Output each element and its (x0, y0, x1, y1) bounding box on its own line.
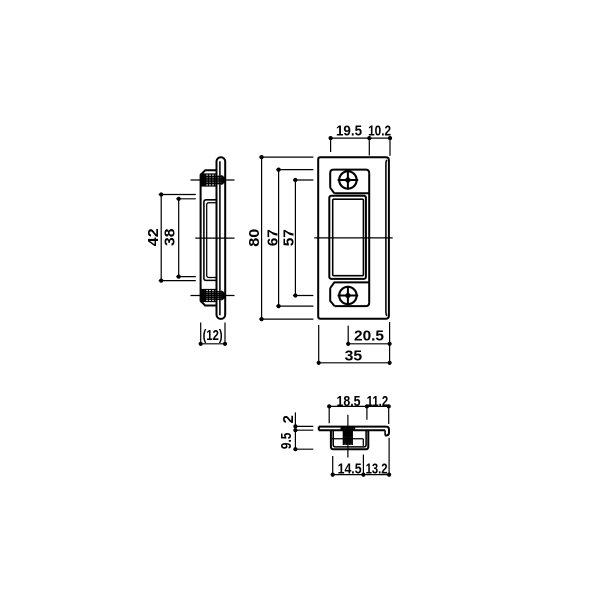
svg-text:13.2: 13.2 (366, 461, 388, 477)
svg-text:(12): (12) (203, 328, 223, 344)
svg-text:10.2: 10.2 (368, 124, 391, 140)
svg-text:11.2: 11.2 (367, 394, 389, 410)
svg-text:57: 57 (281, 229, 297, 246)
svg-text:9.5: 9.5 (279, 433, 295, 450)
svg-text:35: 35 (345, 348, 363, 364)
svg-text:80: 80 (247, 229, 263, 247)
svg-text:18.5: 18.5 (337, 394, 361, 410)
svg-text:2: 2 (281, 415, 297, 423)
svg-text:42: 42 (146, 228, 162, 246)
svg-text:19.5: 19.5 (336, 124, 362, 140)
svg-text:38: 38 (162, 229, 178, 247)
svg-text:67: 67 (265, 229, 281, 246)
svg-text:14.5: 14.5 (338, 461, 362, 477)
svg-text:20.5: 20.5 (354, 329, 384, 345)
